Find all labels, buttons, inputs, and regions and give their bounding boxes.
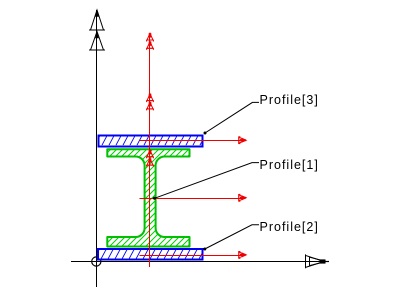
black horizontal axis arrowhead <box>306 254 330 268</box>
red horizontal sketch axis 1 (top) <box>140 140 245 142</box>
red horizontal sketch axis 3 (bottom) <box>140 255 245 257</box>
black vertical axis arrowhead 2 <box>89 32 105 51</box>
red vertical arrow pair 2 (middle) <box>146 94 154 111</box>
red vertical arrow pair 3 (lower) <box>146 150 154 167</box>
top flange profile Profile[3] (blue) <box>99 135 203 146</box>
web I-profile Profile[1] (green) <box>6 148 292 248</box>
bottom flange profile Profile[2] (blue) <box>98 249 202 260</box>
svg-text:Profile[3]: Profile[3] <box>260 93 319 107</box>
black vertical axis line <box>96 10 98 287</box>
origin circle <box>92 257 101 266</box>
svg-text:Profile[1]: Profile[1] <box>260 158 319 172</box>
red vertical arrow pair 1 (top) <box>146 33 154 50</box>
red vertical sketch axis line <box>149 33 151 267</box>
svg-text:Profile[2]: Profile[2] <box>260 220 319 234</box>
black vertical axis arrowhead 1 <box>89 10 105 30</box>
leader Profile[2] <box>203 225 259 251</box>
leader Profile[1] <box>153 163 259 200</box>
red horizontal sketch axis 2 (middle) <box>140 198 245 200</box>
leader Profile[3] <box>204 102 260 134</box>
black horizontal axis line <box>71 261 326 263</box>
